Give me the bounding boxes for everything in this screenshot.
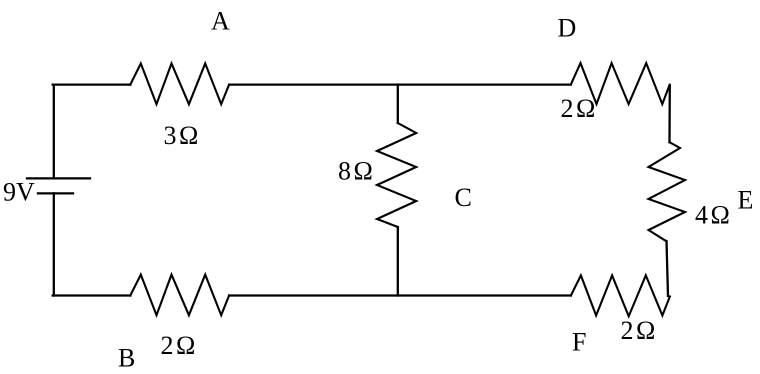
resistor A zigzag xyxy=(130,64,229,105)
wire left vertical upper xyxy=(53,85,55,178)
resistor B zigzag xyxy=(130,275,229,316)
svg-text:2Ω: 2Ω xyxy=(161,331,198,360)
svg-text:F: F xyxy=(572,328,586,357)
wire top-middle horizontal xyxy=(229,83,571,85)
wire bottom-middle horizontal xyxy=(229,294,571,296)
wire middle vertical upper (node to C) xyxy=(397,85,399,123)
resistor F zigzag xyxy=(571,275,670,316)
svg-text:3Ω: 3Ω xyxy=(164,121,201,150)
svg-text:E: E xyxy=(738,186,754,215)
svg-text:B: B xyxy=(118,344,135,373)
battery bottom plate (short) xyxy=(38,192,73,194)
wire right vertical lower (E to F) xyxy=(667,241,669,296)
svg-text:8Ω: 8Ω xyxy=(338,157,375,186)
wire middle vertical lower (C to bottom node) xyxy=(397,227,399,296)
wire bottom-left horizontal xyxy=(53,294,131,296)
battery top plate (long) xyxy=(27,177,90,179)
wire left vertical lower xyxy=(53,193,55,295)
svg-text:2Ω: 2Ω xyxy=(621,316,658,345)
svg-text:2Ω: 2Ω xyxy=(561,94,598,123)
resistor C zigzag xyxy=(377,123,416,227)
svg-text:9V: 9V xyxy=(3,178,35,207)
svg-text:4Ω: 4Ω xyxy=(695,201,732,230)
svg-text:D: D xyxy=(558,14,577,43)
svg-text:C: C xyxy=(455,183,472,212)
resistor E zigzag xyxy=(649,142,686,241)
resistor D zigzag xyxy=(571,63,670,104)
svg-text:A: A xyxy=(211,7,230,36)
wire right vertical upper (D to E) xyxy=(668,85,671,142)
wire top-left horizontal xyxy=(53,83,131,85)
